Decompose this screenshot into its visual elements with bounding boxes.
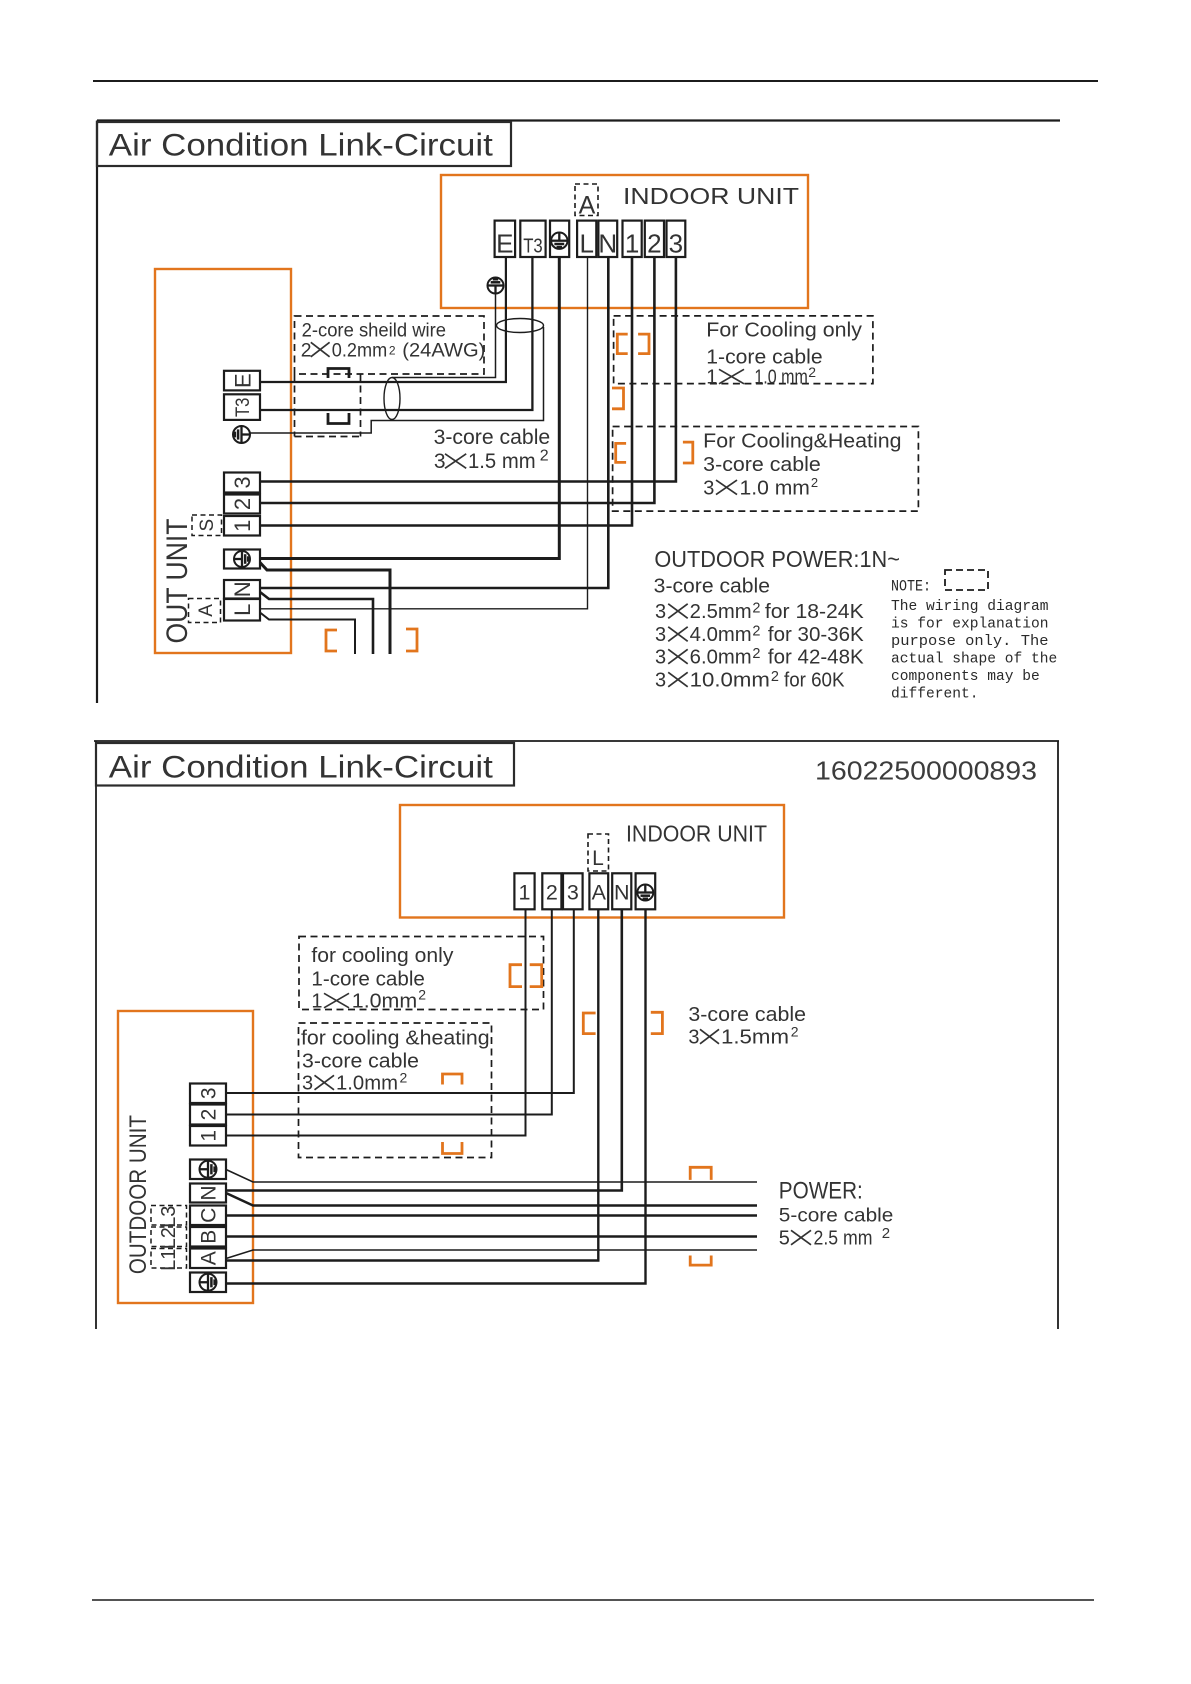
svg-text:1: 1 <box>625 229 639 259</box>
svg-text:N: N <box>230 581 255 597</box>
svg-text:For Cooling only: For Cooling only <box>706 320 862 342</box>
svg-text:1: 1 <box>230 520 255 532</box>
svg-text:3: 3 <box>688 1027 699 1049</box>
svg-text:4.0mm: 4.0mm <box>690 624 752 646</box>
svg-text:A: A <box>592 881 607 905</box>
svg-text:for cooling &heating: for cooling &heating <box>301 1028 490 1050</box>
svg-text:OUTDOOR POWER:1N~: OUTDOOR POWER:1N~ <box>654 546 900 572</box>
svg-text:3: 3 <box>567 881 579 905</box>
svg-text:N: N <box>198 1185 221 1200</box>
svg-text:INDOOR UNIT: INDOOR UNIT <box>626 821 767 847</box>
svg-text:2: 2 <box>418 987 426 1003</box>
svg-text:0.2mm: 0.2mm <box>332 340 387 362</box>
svg-text:A: A <box>196 604 217 617</box>
svg-text:1.0mm: 1.0mm <box>352 991 417 1013</box>
svg-text:3: 3 <box>703 477 714 499</box>
svg-text:for 42-48K: for 42-48K <box>768 647 864 669</box>
svg-text:2: 2 <box>771 669 779 685</box>
svg-text:purpose only. The: purpose only. The <box>891 633 1049 650</box>
svg-text:2: 2 <box>752 623 760 639</box>
svg-text:T3: T3 <box>233 398 254 418</box>
svg-text:2: 2 <box>752 646 760 662</box>
svg-text:POWER:: POWER: <box>779 1177 863 1204</box>
svg-text:1.0mm: 1.0mm <box>336 1073 398 1095</box>
svg-text:actual shape of the: actual shape of the <box>891 651 1057 668</box>
svg-text:3-core cable: 3-core cable <box>703 454 821 476</box>
svg-text:S: S <box>197 519 218 532</box>
svg-text:1-core cable: 1-core cable <box>706 346 822 368</box>
svg-text:2-core sheild wire: 2-core sheild wire <box>302 320 446 342</box>
svg-text:5-core cable: 5-core cable <box>779 1204 894 1226</box>
svg-text:2: 2 <box>647 229 661 259</box>
svg-text:1-core cable: 1-core cable <box>311 969 425 991</box>
svg-text:NOTE:: NOTE: <box>891 578 931 596</box>
svg-text:2: 2 <box>808 364 816 380</box>
svg-text:1.5 mm: 1.5 mm <box>468 450 536 473</box>
svg-text:L2: L2 <box>158 1227 180 1249</box>
svg-text:5: 5 <box>779 1228 790 1250</box>
svg-text:is for explanation: is for explanation <box>891 616 1049 633</box>
svg-text:different.: different. <box>891 686 979 703</box>
svg-text:16022500000893: 16022500000893 <box>815 758 1037 786</box>
svg-text:B: B <box>198 1230 221 1244</box>
svg-text:2: 2 <box>811 475 818 490</box>
svg-text:L: L <box>579 229 593 259</box>
svg-text:2: 2 <box>198 1109 221 1121</box>
svg-text:3-core cable: 3-core cable <box>434 426 551 449</box>
svg-text:3: 3 <box>434 450 446 473</box>
svg-text:2.5mm: 2.5mm <box>690 601 752 623</box>
svg-text:C: C <box>198 1208 221 1223</box>
svg-text:for 30-36K: for 30-36K <box>768 624 864 646</box>
svg-text:10.0mm: 10.0mm <box>690 670 770 692</box>
svg-text:2: 2 <box>389 343 396 357</box>
svg-text:for 18-24K: for 18-24K <box>765 601 864 623</box>
svg-text:3: 3 <box>655 670 666 692</box>
svg-text:2: 2 <box>301 340 312 362</box>
svg-text:Air Condition Link-Circuit: Air Condition Link-Circuit <box>109 749 493 785</box>
svg-text:components may be: components may be <box>891 668 1040 685</box>
svg-text:(24AWG): (24AWG) <box>402 340 485 362</box>
svg-text:2.5 mm: 2.5 mm <box>814 1228 873 1250</box>
svg-text:2: 2 <box>540 447 549 464</box>
svg-text:For Cooling&Heating: For Cooling&Heating <box>703 430 901 452</box>
svg-text:E: E <box>230 373 255 388</box>
svg-text:1.0 mm: 1.0 mm <box>740 477 810 499</box>
svg-text:OUTDOOR UNIT: OUTDOOR UNIT <box>125 1115 152 1274</box>
svg-text:2: 2 <box>400 1070 408 1086</box>
svg-text:A: A <box>198 1251 221 1265</box>
svg-text:OUT UNIT: OUT UNIT <box>161 519 194 644</box>
svg-text:L3: L3 <box>158 1206 180 1228</box>
svg-text:1.0 mm: 1.0 mm <box>754 367 807 389</box>
svg-text:N: N <box>614 881 630 905</box>
svg-text:E: E <box>496 229 513 259</box>
svg-text:3-core cable: 3-core cable <box>688 1004 806 1026</box>
svg-text:The wiring diagram: The wiring diagram <box>891 598 1049 615</box>
svg-text:3: 3 <box>302 1073 313 1095</box>
svg-text:1: 1 <box>706 367 717 389</box>
svg-text:1: 1 <box>519 881 531 905</box>
svg-text:3-core cable: 3-core cable <box>654 575 770 597</box>
svg-text:3: 3 <box>198 1087 221 1099</box>
svg-text:2: 2 <box>791 1024 799 1040</box>
svg-text:3: 3 <box>669 229 683 259</box>
svg-text:2: 2 <box>752 600 760 616</box>
svg-text:1: 1 <box>311 991 322 1013</box>
svg-text:3: 3 <box>655 647 666 669</box>
svg-text:A: A <box>579 192 596 220</box>
svg-text:for 60K: for 60K <box>784 670 845 692</box>
svg-text:for cooling only: for cooling only <box>311 945 453 967</box>
svg-text:3: 3 <box>655 601 666 623</box>
svg-text:2: 2 <box>546 881 558 905</box>
svg-text:2: 2 <box>882 1225 890 1242</box>
svg-text:3: 3 <box>230 476 255 488</box>
svg-text:3: 3 <box>655 624 666 646</box>
svg-text:6.0mm: 6.0mm <box>690 647 752 669</box>
svg-text:N: N <box>598 229 617 259</box>
svg-text:L1: L1 <box>158 1249 180 1271</box>
svg-text:1.5mm: 1.5mm <box>721 1027 789 1049</box>
svg-text:1: 1 <box>198 1130 221 1142</box>
svg-text:L: L <box>230 604 255 616</box>
svg-text:Air Condition Link-Circuit: Air Condition Link-Circuit <box>109 127 493 163</box>
svg-text:INDOOR UNIT: INDOOR UNIT <box>623 183 799 209</box>
svg-text:2: 2 <box>230 498 255 510</box>
svg-text:L: L <box>592 847 604 870</box>
svg-text:T3: T3 <box>523 236 543 258</box>
